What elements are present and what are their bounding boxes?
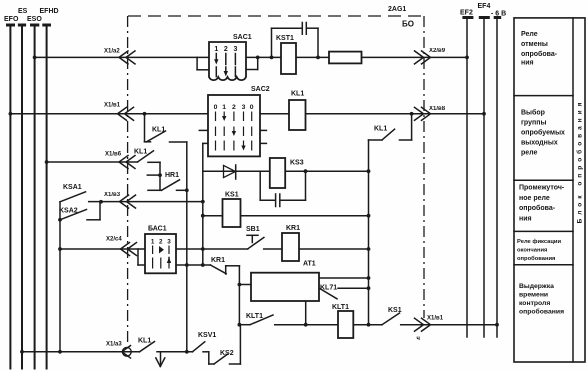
svg-text:AT1: AT1 — [303, 261, 316, 268]
svg-text:выходных: выходных — [521, 140, 558, 147]
svg-text:KS1: KS1 — [388, 307, 402, 314]
svg-text:KSV1: KSV1 — [198, 332, 216, 339]
svg-text:опробования: опробования — [517, 255, 555, 262]
svg-text:Реле фиксации: Реле фиксации — [517, 238, 561, 245]
svg-text:EFHD: EFHD — [40, 8, 59, 15]
svg-text:ч: ч — [417, 336, 421, 342]
svg-text:SB1: SB1 — [246, 226, 260, 233]
svg-text:EF4: EF4 — [478, 3, 491, 10]
svg-text:X1/а3: X1/а3 — [106, 342, 122, 348]
svg-text:реле: реле — [521, 150, 538, 157]
svg-text:2: 2 — [224, 46, 228, 53]
svg-text:Блок опробования: Блок опробования — [576, 99, 584, 224]
svg-text:X2/в9: X2/в9 — [429, 48, 446, 54]
svg-text:отмены: отмены — [521, 41, 548, 48]
svg-text:0: 0 — [250, 104, 254, 111]
svg-text:времени: времени — [519, 292, 548, 299]
svg-text:Реле: Реле — [521, 31, 538, 38]
svg-text:ES: ES — [18, 8, 28, 15]
svg-text:ное реле: ное реле — [519, 195, 550, 202]
svg-text:2: 2 — [159, 239, 163, 246]
svg-text:- 6 B: - 6 B — [491, 11, 506, 18]
svg-text:KSA1: KSA1 — [63, 184, 82, 191]
svg-text:X1/в6: X1/в6 — [105, 152, 122, 158]
svg-text:X1/в8: X1/в8 — [429, 106, 446, 112]
svg-text:3: 3 — [233, 46, 237, 53]
svg-text:KST1: KST1 — [276, 35, 294, 42]
svg-text:KL1: KL1 — [134, 149, 147, 156]
svg-text:опробуемых: опробуемых — [521, 129, 565, 137]
svg-text:KL71: KL71 — [320, 285, 337, 292]
svg-text:БО: БО — [402, 20, 414, 29]
svg-text:KSA2: KSA2 — [59, 208, 78, 215]
svg-text:X1/в1: X1/в1 — [427, 316, 444, 322]
svg-text:KLT1: KLT1 — [332, 304, 349, 311]
svg-text:X1/а2: X1/а2 — [104, 49, 120, 55]
svg-text:2: 2 — [232, 104, 236, 111]
svg-text:KL1: KL1 — [138, 338, 151, 345]
svg-text:ESO: ESO — [27, 16, 42, 23]
svg-text:0: 0 — [214, 104, 218, 111]
svg-text:KS1: KS1 — [225, 192, 239, 199]
svg-text:3: 3 — [242, 104, 246, 111]
svg-text:2AG1: 2AG1 — [388, 6, 406, 13]
svg-text:X1/в1: X1/в1 — [104, 103, 121, 109]
svg-text:ния: ния — [521, 60, 534, 67]
svg-text:X1/в3: X1/в3 — [104, 192, 121, 198]
svg-text:группы: группы — [521, 120, 546, 127]
svg-text:опробования: опробования — [519, 308, 564, 316]
svg-text:KR1: KR1 — [286, 225, 300, 232]
svg-text:EF2: EF2 — [460, 10, 473, 17]
svg-text:SAC2: SAC2 — [251, 86, 270, 93]
svg-text:опробова-: опробова- — [521, 50, 558, 58]
svg-text:KR1: KR1 — [211, 257, 225, 264]
svg-text:HR1: HR1 — [165, 172, 179, 179]
svg-text:1: 1 — [151, 239, 155, 246]
svg-text:KL1: KL1 — [374, 126, 387, 133]
svg-text:SAC1: SAC1 — [233, 34, 252, 41]
svg-text:KLT1: KLT1 — [246, 313, 263, 320]
svg-text:KL1: KL1 — [152, 127, 165, 134]
svg-text:окончания: окончания — [517, 248, 547, 254]
svg-text:KS3: KS3 — [290, 160, 304, 167]
svg-text:ния: ния — [519, 216, 532, 223]
svg-text:1: 1 — [222, 104, 226, 111]
svg-text:KS2: KS2 — [220, 350, 234, 357]
svg-text:опробова-: опробова- — [519, 204, 556, 212]
svg-text:контроля: контроля — [519, 300, 550, 307]
svg-text:X2/с4: X2/с4 — [106, 237, 122, 243]
svg-text:3: 3 — [167, 239, 171, 246]
svg-text:EFO: EFO — [4, 16, 19, 23]
svg-text:БАС1: БАС1 — [148, 226, 167, 233]
svg-text:Выдержка: Выдержка — [519, 283, 554, 290]
svg-text:1: 1 — [214, 46, 218, 53]
svg-text:KL1: KL1 — [291, 91, 304, 98]
svg-text:Выбор: Выбор — [521, 109, 545, 117]
svg-text:Промежуточ-: Промежуточ- — [519, 185, 565, 192]
